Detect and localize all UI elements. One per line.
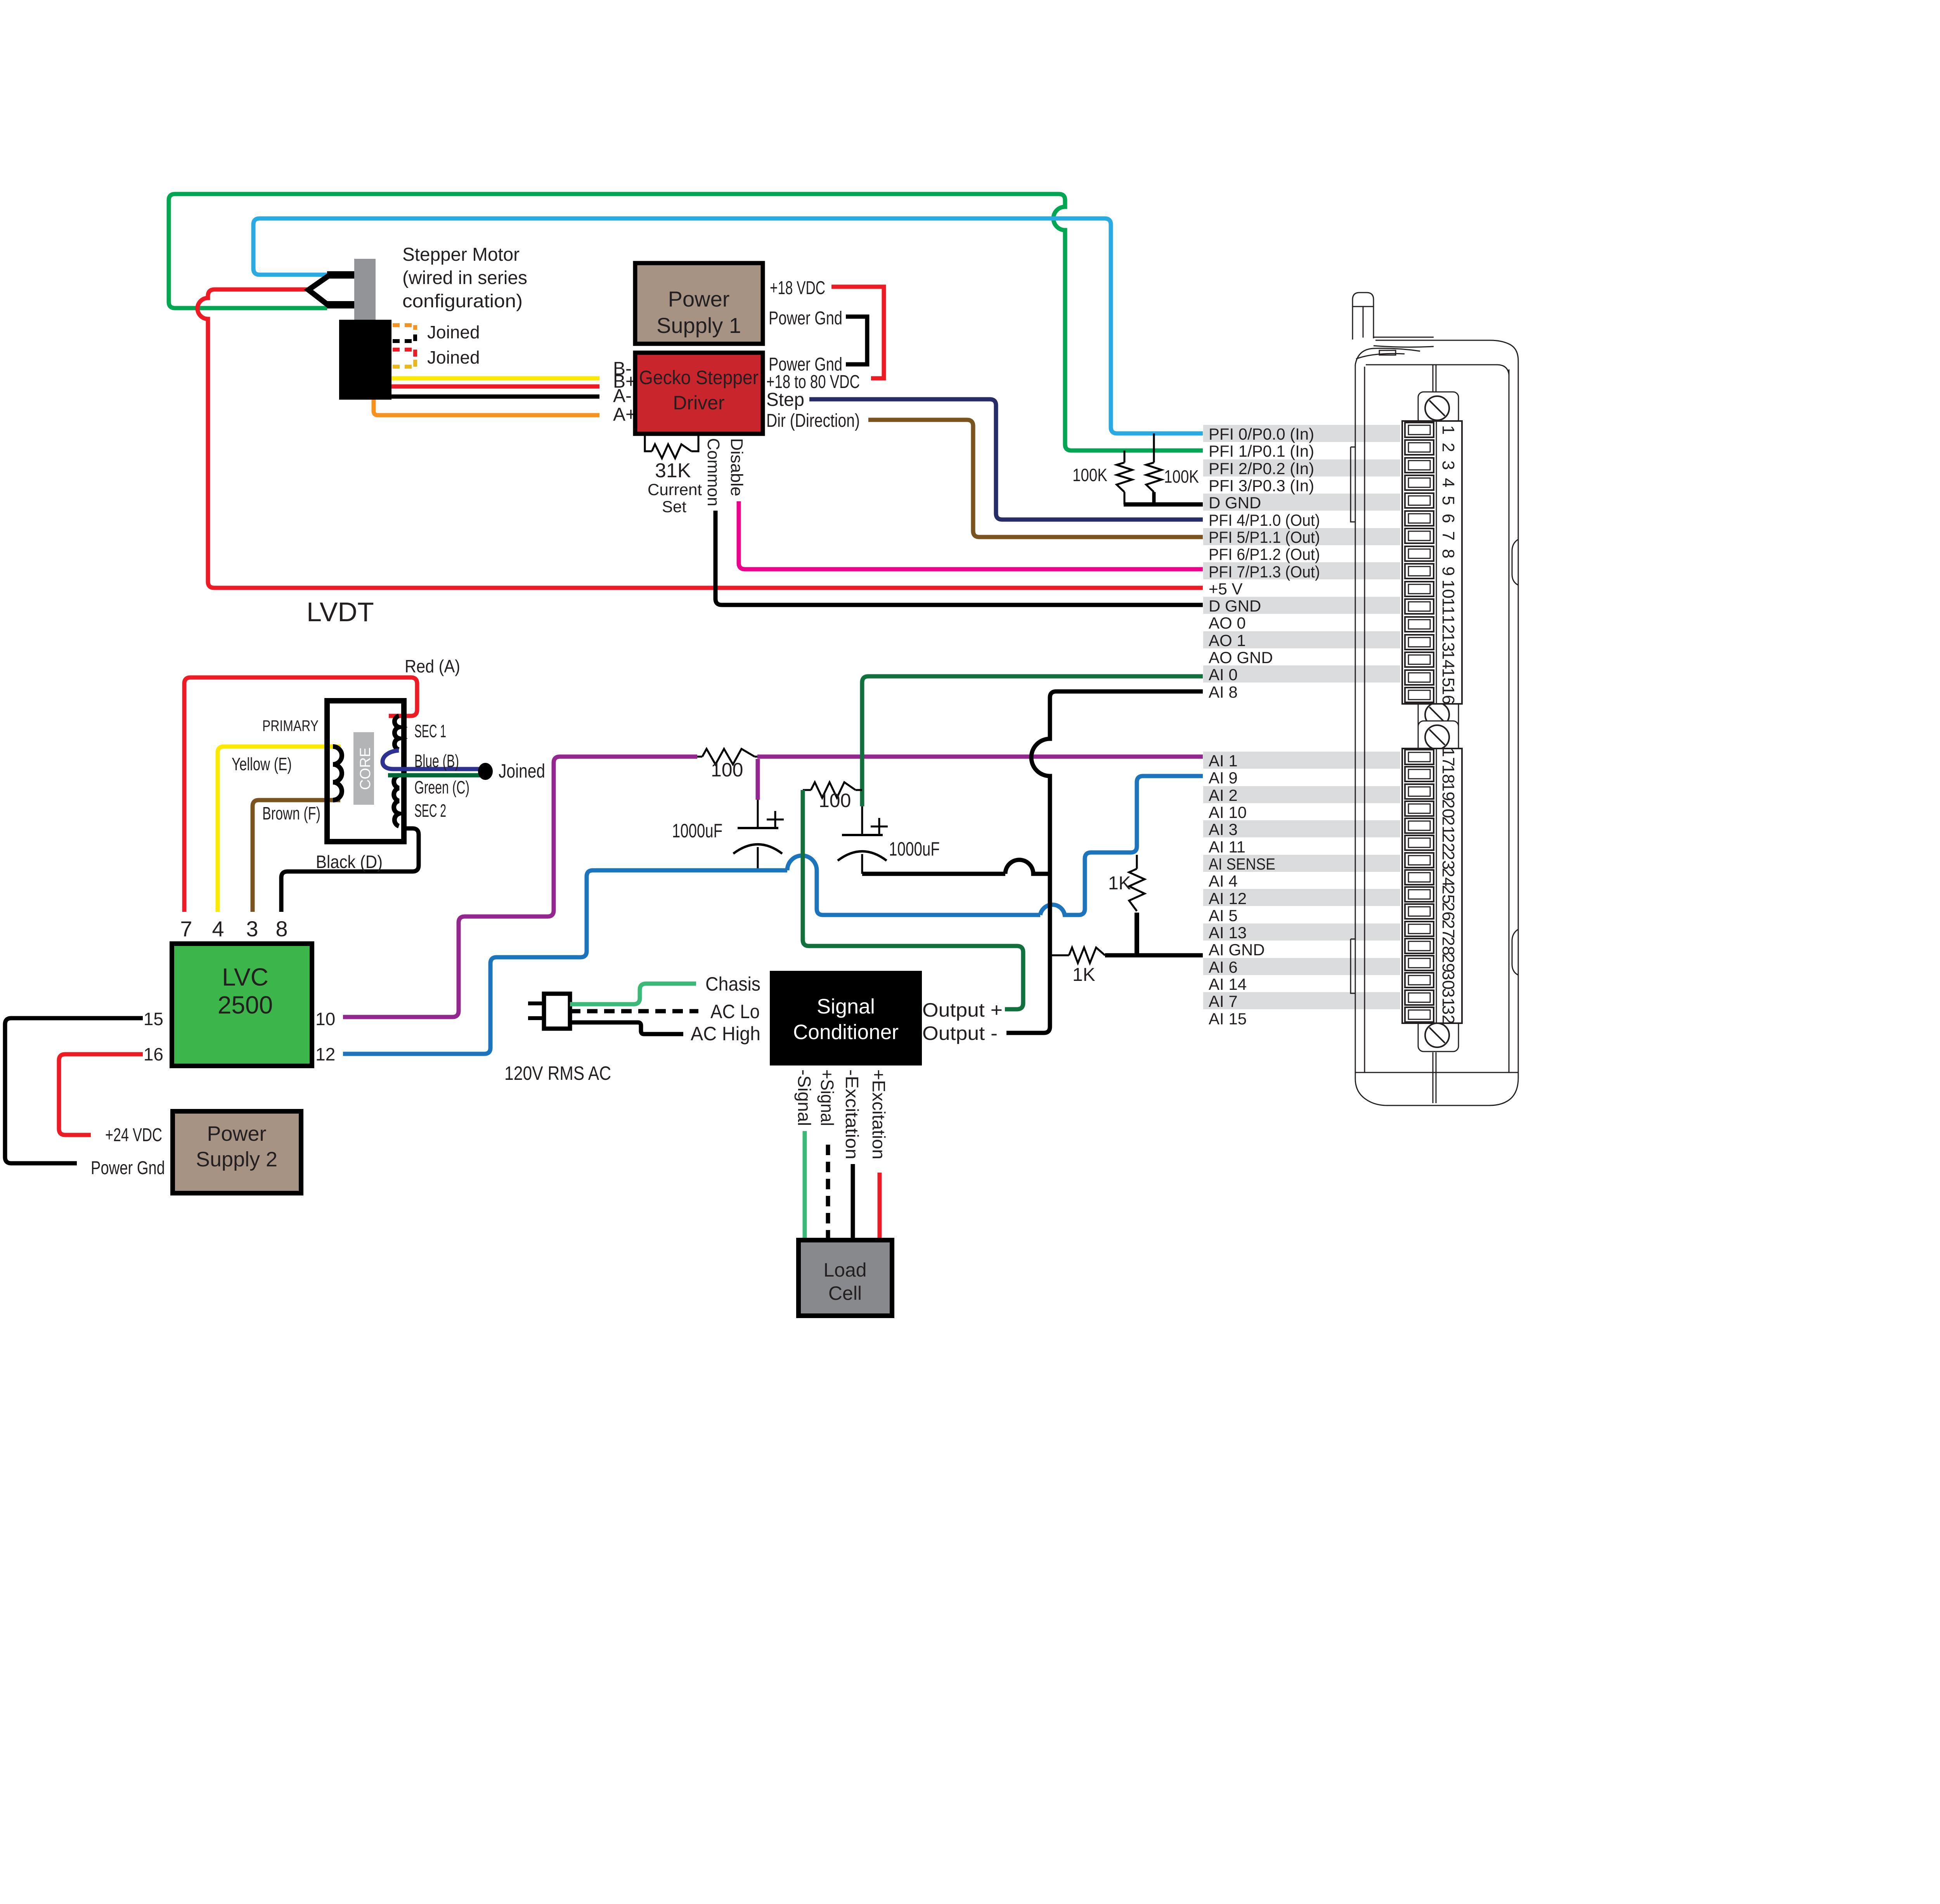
svg-text:100: 100: [711, 759, 743, 781]
svg-text:1: 1: [1439, 425, 1458, 435]
wire Dir brown gecko to DAQ PFI5: [868, 420, 1203, 537]
capacitor C2 plus sign: [871, 818, 888, 835]
svg-text:7: 7: [1439, 531, 1458, 541]
wire PFI0 cyan from stepper motor upper winding to DAQ pin 1: [253, 218, 1203, 433]
LVDT primary coil arcs: [333, 747, 342, 800]
svg-text:19: 19: [1439, 782, 1458, 801]
svg-text:31: 31: [1439, 988, 1458, 1007]
wire -Signal light green SC to load cell: [803, 1131, 807, 1240]
DAQ body outline: [1355, 340, 1518, 1105]
svg-text:PFI 1/P0.1 (In): PFI 1/P0.1 (In): [1209, 442, 1314, 460]
svg-text:PFI 6/P1.2 (Out): PFI 6/P1.2 (Out): [1209, 545, 1320, 563]
svg-text:20: 20: [1439, 799, 1458, 818]
svg-text:D GND: D GND: [1209, 494, 1261, 512]
wire AC Lo dashed black from plug: [570, 1009, 698, 1014]
svg-text:2: 2: [1439, 443, 1458, 452]
svg-text:22: 22: [1439, 833, 1458, 852]
svg-text:+18 VDC: +18 VDC: [770, 278, 825, 298]
DAQ terminal strip pins 17-32: [1402, 748, 1462, 1023]
capacitor C2 bottom curved plate: [838, 851, 887, 861]
svg-text:Power Gnd: Power Gnd: [769, 308, 842, 329]
svg-text:3: 3: [1439, 461, 1458, 470]
stepper motor wire chevron: [308, 275, 329, 306]
DAQ right edge notch lower: [1512, 929, 1518, 975]
svg-text:31K: 31K: [655, 459, 691, 482]
wire LVC pin15 black to power gnd loop: [5, 1018, 143, 1163]
svg-text:+Signal: +Signal: [817, 1069, 837, 1126]
svg-text:11: 11: [1439, 598, 1458, 615]
svg-text:18: 18: [1439, 765, 1458, 784]
svg-text:Conditioner: Conditioner: [793, 1020, 899, 1044]
signal conditioner box: [770, 971, 922, 1065]
wire Yellow (E) LVC pin4 to LVDT primary top: [218, 747, 341, 912]
svg-text:Power Gnd: Power Gnd: [91, 1158, 165, 1178]
DAQ screw top: [1418, 392, 1458, 424]
wire Chasis light green from plug: [570, 984, 696, 1004]
svg-text:Output -: Output -: [922, 1022, 998, 1044]
DAQ left edge tab lower: [1351, 939, 1355, 993]
wire AI8 black from DAQ AI8 down around AI1 to Output-: [1006, 691, 1203, 1033]
svg-text:1K: 1K: [1072, 965, 1095, 985]
wire +5V red from stepper motor centre tap down and across to DAQ +5V: [197, 289, 1203, 588]
svg-text:15: 15: [1439, 668, 1458, 687]
svg-text:21: 21: [1439, 816, 1458, 835]
DAQ label bands top half: [1203, 425, 1400, 442]
DAQ top face curves: [1355, 348, 1420, 365]
svg-text:Load: Load: [823, 1259, 866, 1281]
LVDT SEC2 coil arcs: [394, 775, 399, 826]
LVDT core bar: [353, 732, 374, 805]
power supply 1 box: [635, 263, 763, 344]
svg-text:Stepper Motor: Stepper Motor: [402, 244, 520, 265]
AC plug body: [544, 994, 570, 1029]
svg-text:Joined: Joined: [427, 347, 480, 367]
svg-text:Joined: Joined: [427, 322, 480, 342]
wire AI9 blue hop over black vertical then up to AI9: [1040, 776, 1203, 915]
joined dashed wire black (motor winding tap): [393, 334, 415, 341]
svg-text:AI 10: AI 10: [1209, 803, 1247, 821]
wire black cap C2 bottom to output- vertical with hop: [862, 860, 1050, 874]
svg-text:16: 16: [144, 1044, 163, 1064]
wire AI1 purple right of resistor: [757, 755, 1203, 759]
wire A- black motor to gecko driver: [391, 395, 599, 399]
svg-text:Yellow (E): Yellow (E): [232, 754, 292, 774]
svg-text:D GND: D GND: [1209, 597, 1261, 615]
wire B- yellow motor to gecko driver: [391, 376, 599, 381]
svg-text:-Signal: -Signal: [794, 1069, 814, 1126]
svg-text:-Excitation: -Excitation: [842, 1069, 862, 1159]
svg-text:Output +: Output +: [922, 999, 1003, 1021]
svg-text:100K: 100K: [1072, 465, 1107, 485]
svg-text:Driver: Driver: [673, 392, 724, 414]
svg-text:AI 3: AI 3: [1209, 820, 1238, 839]
wire -Excitation black SC to load cell: [851, 1164, 855, 1240]
DAQ terminal strip pins 1-16: [1402, 421, 1462, 704]
LVC 2500 box: [172, 944, 312, 1066]
capacitor C1 plus sign: [767, 811, 784, 828]
DAQ left edge tab upper: [1351, 447, 1355, 522]
svg-text:30: 30: [1439, 971, 1458, 990]
svg-text:100K: 100K: [1164, 466, 1199, 487]
svg-text:+Excitation: +Excitation: [869, 1069, 889, 1159]
svg-text:4: 4: [1439, 478, 1458, 487]
wire LVC pin16 red to +24VDC: [59, 1054, 143, 1135]
wire +Signal dashed black SC to load cell: [826, 1145, 830, 1240]
svg-text:AI 2: AI 2: [1209, 786, 1238, 804]
svg-text:14: 14: [1439, 650, 1458, 669]
svg-text:AO GND: AO GND: [1209, 648, 1273, 667]
svg-text:PFI 2/P0.2 (In): PFI 2/P0.2 (In): [1209, 459, 1314, 478]
svg-text:5: 5: [1439, 496, 1458, 505]
svg-text:Chasis: Chasis: [705, 973, 760, 995]
svg-text:PFI 4/P1.0 (Out): PFI 4/P1.0 (Out): [1209, 511, 1320, 529]
svg-text:AI 8: AI 8: [1209, 683, 1238, 701]
svg-text:6: 6: [1439, 514, 1458, 523]
load cell box: [799, 1240, 892, 1316]
svg-text:29: 29: [1439, 954, 1458, 973]
DAQ screw middle 1: [1418, 698, 1458, 731]
wire AI9 blue hop over green vertical then down: [787, 856, 1040, 915]
svg-text:Power: Power: [207, 1122, 266, 1145]
svg-text:AI 5: AI 5: [1209, 906, 1238, 925]
wire ground bus to D GND row: [1124, 502, 1203, 507]
svg-text:17: 17: [1439, 748, 1458, 767]
svg-text:27: 27: [1439, 920, 1458, 939]
svg-text:AI 14: AI 14: [1209, 975, 1247, 993]
svg-text:Gecko Stepper: Gecko Stepper: [639, 367, 759, 388]
DAQ screw middle 2: [1418, 721, 1458, 754]
joined dashed wire red (motor winding tap): [393, 350, 415, 358]
svg-text:AI 6: AI 6: [1209, 958, 1238, 976]
svg-text:Dir (Direction): Dir (Direction): [766, 411, 860, 431]
joined dot node: [478, 763, 493, 780]
svg-text:+5 V: +5 V: [1209, 580, 1243, 598]
svg-text:SEC 1: SEC 1: [414, 721, 446, 741]
svg-text:SEC 2: SEC 2: [414, 800, 446, 821]
svg-text:2500: 2500: [218, 991, 273, 1019]
svg-text:AC High: AC High: [691, 1023, 760, 1045]
svg-text:3: 3: [246, 916, 258, 941]
svg-text:AO 0: AO 0: [1209, 614, 1246, 632]
svg-text:9: 9: [1439, 567, 1458, 576]
power supply 2 box: [173, 1111, 301, 1193]
wire AC High black from plug: [570, 1022, 683, 1034]
joined dashed wire yellow (motor winding tap): [393, 360, 415, 367]
svg-text:10: 10: [1439, 580, 1458, 599]
svg-text:AI SENSE: AI SENSE: [1209, 855, 1275, 873]
svg-text:Black (D): Black (D): [316, 852, 383, 872]
svg-text:28: 28: [1439, 937, 1458, 956]
svg-text:PFI 3/P0.3 (In): PFI 3/P0.3 (In): [1209, 476, 1314, 495]
svg-text:Supply 1: Supply 1: [656, 313, 741, 338]
stepper motor body (black): [339, 320, 391, 400]
svg-text:4: 4: [212, 916, 224, 941]
svg-text:Supply 2: Supply 2: [196, 1148, 277, 1171]
capacitor C2 top plate: [842, 834, 883, 836]
svg-text:100: 100: [819, 790, 851, 811]
svg-text:AI 13: AI 13: [1209, 923, 1247, 942]
svg-text:configuration): configuration): [402, 291, 523, 312]
svg-text:23: 23: [1439, 851, 1458, 870]
svg-text:A+: A+: [613, 404, 636, 425]
resistor 100 between green verticals: [803, 782, 862, 798]
resistor 1K horizontal on AI GND line: [1050, 948, 1105, 963]
svg-text:AC Lo: AC Lo: [710, 1001, 760, 1022]
DAQ right edge notch upper: [1512, 539, 1518, 585]
svg-text:Green (C): Green (C): [414, 777, 469, 797]
svg-text:AI 15: AI 15: [1209, 1010, 1247, 1028]
svg-text:LVC: LVC: [222, 963, 268, 991]
capacitor C1 top lead: [757, 800, 759, 828]
wire Black (D) LVC pin8 to LVDT SEC2 bottom: [281, 828, 419, 912]
wire Output+ dark green from resistor to signal conditioner output: [803, 790, 1023, 1009]
svg-text:1000uF: 1000uF: [672, 820, 722, 842]
resistor 100 on AI1 line: [697, 749, 757, 764]
svg-text:Signal: Signal: [817, 995, 875, 1018]
wire Green (C) from SEC2 to joined dot: [388, 773, 481, 778]
resistor 100K left (PFI1 pulldown): [1117, 450, 1132, 504]
svg-text:Disable: Disable: [727, 438, 746, 496]
wire Step navy gecko to DAQ PFI4: [809, 399, 1203, 520]
svg-text:32: 32: [1439, 1005, 1458, 1024]
svg-text:AI 1: AI 1: [1209, 752, 1238, 770]
svg-text:10: 10: [315, 1009, 335, 1029]
wire AI0 dark green from DAQ AI0 down to cap C2: [862, 676, 1203, 806]
capacitor C2 bottom lead: [861, 854, 863, 874]
joined dashed wire orange (motor winding tap): [393, 323, 415, 327]
LVDT SEC1 coil arcs: [395, 716, 399, 750]
svg-text:Cell: Cell: [828, 1282, 862, 1304]
svg-text:Red (A): Red (A): [405, 656, 460, 676]
capacitor C1 top plate: [738, 827, 778, 829]
svg-text:12: 12: [315, 1044, 335, 1064]
svg-text:Common: Common: [704, 438, 723, 506]
svg-text:24: 24: [1439, 868, 1458, 887]
wire AI GND black to DAQ: [1105, 953, 1203, 958]
wire Red (A) LVC pin7 to LVDT SEC1 top: [184, 677, 417, 912]
AC plug lower prong: [528, 1016, 544, 1020]
svg-text:Brown (F): Brown (F): [262, 803, 320, 823]
wire black thick lead below 1K vertical: [1135, 913, 1139, 955]
AC plug upper prong: [528, 1001, 544, 1005]
svg-text:12: 12: [1439, 615, 1458, 634]
svg-text:(wired in series: (wired in series: [402, 268, 527, 288]
capacitor C1 bottom curved plate: [733, 844, 782, 854]
wire Blue (B) from SEC1 to joined dot: [383, 750, 480, 769]
svg-text:AI GND: AI GND: [1209, 941, 1265, 959]
svg-text:AI 12: AI 12: [1209, 889, 1247, 908]
svg-text:Power: Power: [668, 287, 730, 311]
wire Brown (F) LVC pin3 to LVDT primary bottom: [253, 800, 340, 912]
svg-text:Set: Set: [662, 497, 686, 516]
svg-text:8: 8: [1439, 549, 1458, 558]
svg-text:13: 13: [1439, 633, 1458, 652]
svg-text:PFI 0/P0.0 (In): PFI 0/P0.0 (In): [1209, 425, 1314, 443]
svg-text:A-: A-: [613, 386, 632, 406]
svg-text:Joined: Joined: [499, 760, 545, 782]
svg-text:AI 0: AI 0: [1209, 665, 1238, 684]
DAQ label bands bottom half: [1203, 752, 1400, 769]
wire Common black gecko to DAQ D GND: [715, 511, 1203, 605]
resistor 100K right (PFI0 pulldown): [1146, 433, 1162, 504]
svg-text:8: 8: [275, 916, 288, 941]
LVDT transformer body: [327, 701, 404, 842]
wire +Excitation red SC to load cell: [878, 1173, 882, 1240]
joined dashed wire orange vertical: [413, 325, 417, 333]
svg-text:1K: 1K: [1108, 873, 1131, 894]
wire AI9 blue from LVC pin12 to DAQ AI9: [343, 870, 787, 1054]
svg-text:PFI 5/P1.1 (Out): PFI 5/P1.1 (Out): [1209, 528, 1320, 546]
svg-text:AO 1: AO 1: [1209, 631, 1246, 650]
svg-text:AI 4: AI 4: [1209, 872, 1238, 890]
svg-text:Step: Step: [766, 390, 804, 410]
stepper motor lower lead stub: [327, 301, 355, 308]
svg-text:Blue (B): Blue (B): [414, 751, 459, 771]
stepper motor upper lead stub: [327, 271, 355, 279]
svg-text:1000uF: 1000uF: [889, 838, 940, 860]
svg-text:7: 7: [180, 916, 192, 941]
DAQ USB connector bump: [1353, 293, 1374, 340]
wire AI1 purple from LVC pin10 to DAQ AI1: [343, 757, 697, 1017]
svg-text:+24 VDC: +24 VDC: [105, 1125, 162, 1145]
svg-text:AI 9: AI 9: [1209, 769, 1238, 787]
capacitor C1 purple stub: [756, 759, 760, 800]
DAQ screw bottom: [1418, 1019, 1458, 1052]
wire +18VDC red connector power supply 1 to gecko: [831, 287, 884, 378]
wire PFI1 green from stepper motor lower winding to DAQ pin 2: [169, 194, 1203, 450]
svg-text:120V RMS AC: 120V RMS AC: [504, 1062, 611, 1084]
svg-text:AI 7: AI 7: [1209, 992, 1238, 1010]
DAQ device NI USB module line art: [1351, 293, 1518, 1105]
capacitor C1 bottom lead to blue wire: [757, 847, 759, 870]
svg-text:CORE: CORE: [357, 747, 374, 790]
capacitor C2 top lead: [861, 806, 863, 835]
wire Disable magenta gecko to DAQ PFI7: [739, 501, 1203, 569]
resistor 31K current set loop under gecko: [645, 434, 698, 451]
svg-text:Current: Current: [648, 480, 702, 499]
svg-text:16: 16: [1439, 686, 1458, 705]
svg-text:25: 25: [1439, 885, 1458, 904]
gecko stepper driver box: [635, 353, 763, 434]
svg-text:AI 11: AI 11: [1209, 838, 1245, 856]
wire A+ orange motor to gecko driver: [374, 400, 599, 415]
svg-text:15: 15: [144, 1009, 163, 1029]
resistor 1K vertical from AI9 line to AI GND line: [1129, 855, 1145, 911]
svg-text:26: 26: [1439, 902, 1458, 921]
svg-text:LVDT: LVDT: [307, 597, 374, 627]
svg-text:PRIMARY: PRIMARY: [262, 717, 319, 735]
wire B+ red motor to gecko driver: [391, 385, 599, 389]
svg-text:PFI 7/P1.3 (Out): PFI 7/P1.3 (Out): [1209, 563, 1320, 581]
stepper motor shaft (gray): [354, 259, 376, 320]
wire power gnd black connector ps1 to gecko: [846, 317, 867, 364]
